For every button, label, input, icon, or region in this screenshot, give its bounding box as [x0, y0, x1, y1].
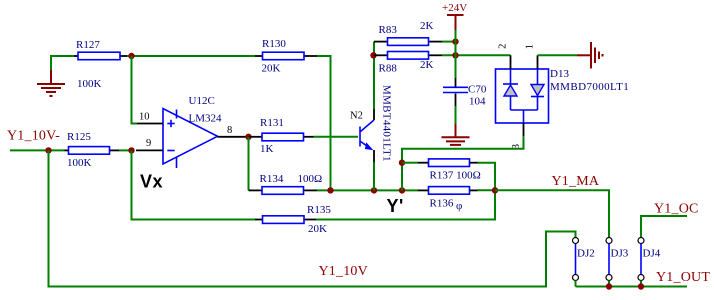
ground GND3 (right, rotated) — [577, 42, 603, 69]
svg-text:20K: 20K — [308, 223, 327, 235]
op-amp U12C — [163, 95, 222, 168]
wire input — [10, 149, 65, 151]
node junction R137 column — [399, 187, 405, 193]
resistor R125 — [65, 131, 120, 169]
pin 3 of D13 — [523, 123, 525, 136]
svg-text:1: 1 — [524, 44, 535, 49]
wire pin8 down to R134 — [248, 137, 250, 191]
resistor R131 — [249, 117, 314, 155]
resistor R134 — [249, 173, 323, 194]
svg-text:R83: R83 — [379, 24, 398, 36]
svg-text:9: 9 — [146, 138, 151, 149]
connector DJ3 — [606, 238, 629, 281]
svg-text:104: 104 — [469, 96, 486, 108]
svg-text:Y1_10V-: Y1_10V- — [7, 129, 60, 144]
wire gnd to R127 — [51, 56, 74, 70]
wire emitter down — [373, 162, 375, 190]
resistor R137 — [418, 159, 481, 182]
wire +24V down — [455, 30, 457, 78]
svg-text:10: 10 — [139, 112, 150, 123]
wire R125 to pin9 junction — [119, 149, 132, 151]
svg-text:100K: 100K — [67, 157, 92, 169]
wire R136 right — [478, 189, 496, 191]
svg-text:R135: R135 — [307, 204, 331, 216]
pin 1 of D13 — [537, 55, 539, 69]
svg-text:R136: R136 — [430, 198, 454, 210]
pin 8 output — [218, 136, 249, 138]
node junction pin8 — [245, 134, 251, 140]
svg-text:2: 2 — [497, 44, 508, 49]
wire R137 left to column — [402, 162, 418, 164]
resistor R136 — [418, 187, 478, 212]
svg-text:DJ3: DJ3 — [611, 248, 629, 260]
svg-text:R130: R130 — [262, 38, 286, 50]
resistor R130 — [255, 38, 317, 75]
wire R88 right to pin2 of D13 — [442, 54, 511, 56]
wire pin1 to ground — [538, 54, 578, 56]
connector DJ2 — [573, 238, 595, 281]
wire C70 to ground — [455, 106, 457, 124]
svg-text:100K: 100K — [77, 78, 102, 90]
wire pin3 to left column — [402, 136, 524, 190]
svg-text:MMBT4401LT1: MMBT4401LT1 — [381, 85, 393, 162]
wire pin9 junction down to R135 row — [132, 150, 256, 219]
svg-text:D13: D13 — [550, 68, 569, 80]
wire junction row to R130 — [127, 55, 255, 57]
wire DJ4 bottom — [640, 281, 642, 287]
svg-text:2K: 2K — [420, 59, 434, 71]
pin 9 — [136, 149, 163, 151]
wire bottom out row — [576, 286, 688, 288]
wire R135 right to Y1_MA junction column — [316, 190, 495, 219]
wire collector up — [373, 42, 375, 109]
node junction Y1_MA — [492, 187, 498, 193]
svg-text:Y1_10V: Y1_10V — [319, 264, 368, 279]
diode pack D13 MMBD7000LT1 — [496, 68, 630, 123]
wire Y1_OC to DJ4 — [641, 216, 687, 238]
svg-text:DJ2: DJ2 — [577, 248, 595, 260]
power +24V — [442, 2, 467, 30]
svg-text:R131: R131 — [260, 117, 284, 129]
svg-text:20K: 20K — [262, 63, 281, 75]
resistor R135 — [255, 204, 331, 235]
svg-text:C70: C70 — [468, 83, 487, 95]
svg-text:LM324: LM324 — [189, 113, 223, 125]
svg-text:R137 100Ω: R137 100Ω — [430, 170, 481, 182]
wire R131 to N2 base — [314, 136, 359, 138]
transistor N2 — [350, 109, 374, 162]
wire DJ3 bottom — [608, 281, 610, 287]
node junction DJ4 bottom — [638, 283, 644, 289]
wire R130 right down to R134 row — [317, 56, 331, 190]
ground GND2 (below C70) — [442, 124, 470, 145]
wire Y1_MA to DJ3 — [495, 190, 609, 237]
svg-text:1K: 1K — [260, 143, 274, 155]
wire R137 right down — [478, 163, 496, 191]
node junction R88/C70 — [452, 52, 458, 58]
svg-text:2K: 2K — [420, 20, 434, 32]
node junction R83/+24V — [452, 38, 458, 44]
svg-text:U12C: U12C — [189, 95, 215, 107]
node junction R137 left — [399, 160, 405, 166]
svg-text:DJ4: DJ4 — [643, 248, 661, 260]
svg-text:Y1_MA: Y1_MA — [552, 174, 600, 189]
wire down left side to bottom — [49, 150, 576, 286]
pin 10 — [137, 123, 163, 125]
node junction input — [45, 147, 51, 153]
svg-text:Y1_OUT: Y1_OUT — [656, 270, 710, 285]
svg-text:R88: R88 — [379, 63, 398, 75]
connector DJ4 — [638, 238, 661, 281]
svg-text:100Ω: 100Ω — [298, 173, 323, 185]
resistor R88 — [374, 52, 442, 75]
svg-text:Y1_OC: Y1_OC — [654, 202, 699, 217]
resistor R83 — [374, 20, 442, 45]
svg-text:8: 8 — [227, 125, 232, 136]
wire R134 row — [317, 189, 418, 191]
svg-text:R125: R125 — [67, 131, 91, 143]
svg-text:N2: N2 — [350, 111, 363, 122]
wire R83 right to +24V column — [442, 41, 456, 43]
wire DJ2 bottom — [575, 281, 577, 287]
svg-text:φ: φ — [456, 200, 462, 212]
svg-text:Y': Y' — [387, 196, 404, 216]
node junction R127/R130/pin10 — [128, 53, 134, 59]
node junction R130/R134 — [327, 187, 333, 193]
resistor R127 — [74, 39, 127, 90]
svg-text:+24V: +24V — [442, 2, 467, 14]
node junction emitter — [371, 187, 377, 193]
node junction pin9 — [128, 147, 134, 153]
capacitor C70 — [443, 78, 487, 108]
svg-text:R127: R127 — [76, 39, 100, 51]
svg-text:MMBD7000LT1: MMBD7000LT1 — [550, 81, 629, 93]
ground GND1 (top-left earth) — [37, 70, 65, 96]
pin 2 of D13 — [510, 55, 512, 69]
node junction collector/R83/R88 — [370, 52, 376, 58]
svg-text:Vx: Vx — [140, 172, 163, 192]
wire down to pin 10 — [132, 56, 138, 124]
svg-text:R134: R134 — [260, 173, 284, 185]
node junction DJ3 bottom — [606, 283, 612, 289]
